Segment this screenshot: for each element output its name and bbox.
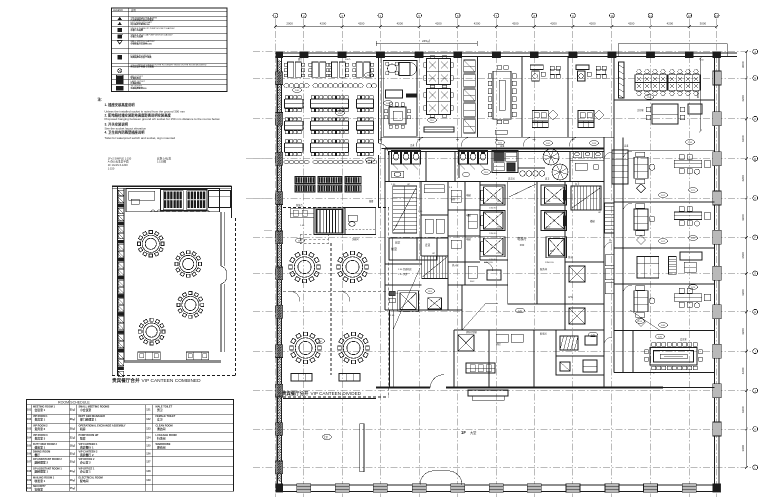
svg-text:129: 129 <box>146 479 151 482</box>
columns on right wall <box>713 71 722 436</box>
svg-text:配电间: 配电间 <box>540 332 547 336</box>
svg-text:4200: 4200 <box>628 21 635 25</box>
svg-text:20㎡: 20㎡ <box>70 460 76 464</box>
top grid bubbles and dimension line <box>273 13 719 28</box>
svg-text:L: L <box>754 466 756 470</box>
open office cluster north 1 <box>424 56 453 87</box>
svg-text:1.20: 1.20 <box>418 211 423 213</box>
svg-text:VIP CANTEEN COMBINED: VIP CANTEEN COMBINED <box>142 378 202 384</box>
room tag 116 <box>315 339 324 344</box>
lobby floor label <box>461 430 476 435</box>
svg-text:3600: 3600 <box>741 252 745 259</box>
svg-text:115: 115 <box>298 241 302 243</box>
fire control x-box <box>458 335 474 351</box>
sofa office room 3 <box>634 286 711 327</box>
room tag 107 <box>658 239 667 244</box>
svg-text:E: E <box>754 196 756 200</box>
svg-text:清洁间: 清洁间 <box>157 427 166 431</box>
svg-text:4. 卫生间内防溅型插座说明: 4. 卫生间内防溅型插座说明 <box>105 129 146 134</box>
heavy lobby wall <box>376 375 715 388</box>
svg-text:女卫: 女卫 <box>575 182 580 186</box>
svg-text:101: 101 <box>498 143 502 145</box>
stair west <box>393 186 417 233</box>
interior dimension bracket canteen <box>376 38 477 46</box>
svg-text:35㎡: 35㎡ <box>70 451 76 455</box>
wc stalls mid <box>459 151 488 177</box>
svg-text:102: 102 <box>546 143 550 145</box>
room tag 107 <box>658 193 667 198</box>
svg-text:办公室 2: 办公室 2 <box>80 461 91 465</box>
columns on left wall <box>276 72 283 474</box>
svg-text:∅: ∅ <box>653 372 655 375</box>
room tag 108 <box>658 323 667 328</box>
svg-text:UP: UP <box>407 184 411 186</box>
svg-text:会议室 1: 会议室 1 <box>35 408 46 412</box>
open office shelf <box>424 127 454 132</box>
svg-text:1: 1 <box>275 14 277 18</box>
svg-text:3000: 3000 <box>741 61 745 68</box>
svg-text:女卫: 女卫 <box>157 418 163 422</box>
svg-text:K: K <box>754 427 756 431</box>
vip combined round table 4 <box>138 318 165 345</box>
svg-text:注:: 注: <box>98 97 103 102</box>
workstation bank right 2 <box>668 69 700 95</box>
ahu room with x-box 2 <box>428 298 442 309</box>
svg-text:消控: 消控 <box>496 342 501 346</box>
core inner small rooms west block <box>385 182 595 311</box>
core outer heavy walls <box>385 149 604 389</box>
grid stub lines left <box>246 159 272 230</box>
svg-text:109: 109 <box>27 479 32 482</box>
rooms under west lift bank <box>389 262 501 303</box>
svg-text:106: 106 <box>27 452 32 455</box>
svg-text:1.5C 风井: 1.5C 风井 <box>398 272 408 276</box>
svg-text:28㎡: 28㎡ <box>70 417 76 421</box>
svg-text:7: 7 <box>496 14 498 18</box>
right small office desk room y100-150 <box>646 104 702 124</box>
vip divided round table 3 <box>290 332 322 364</box>
svg-text:4200: 4200 <box>741 95 745 102</box>
svg-text:119: 119 <box>428 291 432 293</box>
oval marks lobby <box>323 434 332 439</box>
lobby mullion feature <box>360 424 364 472</box>
fire control suite south of core <box>454 330 534 388</box>
vip divided dashed boundary <box>283 208 389 398</box>
svg-text:2: 2 <box>303 14 305 18</box>
svg-text:121: 121 <box>691 190 695 192</box>
svg-text:F60: F60 <box>520 243 525 247</box>
svg-text:副经理室 1: 副经理室 1 <box>35 470 49 474</box>
notes heading <box>98 97 221 141</box>
svg-text:102: 102 <box>27 418 32 421</box>
vip divided round table 1 <box>289 251 321 283</box>
svg-text:洗手间: 洗手间 <box>508 177 515 181</box>
svg-text:电梯厅: 电梯厅 <box>517 236 527 241</box>
svg-text:1F 1G/1S 6-1200: 1F 1G/1S 6-1200 <box>108 163 128 167</box>
lift bank east (3 lifts) <box>541 185 566 258</box>
svg-text:收发室 1: 收发室 1 <box>35 479 46 483</box>
svg-text:18㎡: 18㎡ <box>70 478 76 482</box>
svg-text:2000: 2000 <box>286 21 293 25</box>
svg-text:4200: 4200 <box>741 175 745 182</box>
svg-text:4200: 4200 <box>741 406 745 413</box>
svg-text:18㎡: 18㎡ <box>70 444 76 448</box>
svg-text:电梯: 电梯 <box>466 193 471 197</box>
svg-text:106: 106 <box>295 90 299 92</box>
room tag 106 <box>335 111 344 116</box>
svg-text:103: 103 <box>27 427 32 430</box>
svg-text:4200: 4200 <box>667 21 674 25</box>
vip divided benches <box>291 374 360 382</box>
spec text block <box>108 156 172 170</box>
svg-text:245㎡: 245㎡ <box>422 38 430 43</box>
svg-text:UP: UP <box>432 253 436 255</box>
svg-text:122: 122 <box>691 238 695 240</box>
svg-text:服务间: 服务间 <box>540 267 548 271</box>
room tag 120 <box>515 308 524 313</box>
svg-text:108: 108 <box>661 325 665 327</box>
svg-text:大堂: 大堂 <box>324 435 329 439</box>
svg-text:电梯: 电梯 <box>466 237 471 241</box>
building left wall <box>277 53 281 492</box>
svg-text:2.50 空调机房: 2.50 空调机房 <box>398 267 412 271</box>
room tag 109 <box>383 101 392 106</box>
room tag 104 <box>685 140 694 145</box>
svg-text:9: 9 <box>572 14 574 18</box>
room right of core with tv <box>612 150 628 184</box>
svg-text:125: 125 <box>146 445 151 448</box>
service shaft strip left of conference <box>462 57 478 138</box>
ns corridor walls <box>604 100 614 388</box>
svg-text:贵宾室 3: 贵宾室 3 <box>35 437 46 441</box>
svg-text:H: H <box>754 310 756 314</box>
svg-text:123: 123 <box>691 287 695 289</box>
svg-text:2.40: 2.40 <box>390 315 395 317</box>
columns on bottom wall <box>297 484 696 493</box>
vip combined right wall and dashed boundary <box>112 186 236 375</box>
columns on top wall <box>300 52 721 58</box>
sofa office room 2 <box>634 204 711 245</box>
svg-text:4200: 4200 <box>358 21 365 25</box>
svg-text:4200: 4200 <box>512 21 519 25</box>
svg-text:1350 KG: 1350 KG <box>545 262 554 264</box>
vip combined round table 3 <box>177 292 204 319</box>
janitor dark block <box>492 151 518 173</box>
svg-text:1F: 1F <box>461 430 466 435</box>
svg-text:贵宾餐厅 1: 贵宾餐厅 1 <box>80 445 94 449</box>
svg-text:D: D <box>754 157 756 161</box>
vip combined round table 2 <box>175 251 202 278</box>
buffet counters striped <box>295 177 361 193</box>
svg-text:4200: 4200 <box>741 289 745 296</box>
svg-text:餐厅: 餐厅 <box>34 453 41 457</box>
pantry square table with chairs <box>384 103 411 129</box>
core strip rooms between stair and lifts <box>448 182 480 286</box>
svg-text:1.00: 1.00 <box>300 225 305 227</box>
svg-text:C: C <box>754 117 756 121</box>
svg-text:贵宾餐厅合并: 贵宾餐厅合并 <box>112 377 140 384</box>
svg-text:1350: 1350 <box>546 201 550 203</box>
svg-text:104: 104 <box>688 142 692 144</box>
svg-text:4200: 4200 <box>474 21 481 25</box>
svg-text:300人: 300人 <box>345 58 352 61</box>
wc stalls west <box>392 151 421 178</box>
canteen table band y=117.7 <box>285 118 374 134</box>
diagonal leader lines lobby <box>393 268 660 331</box>
svg-text:110: 110 <box>27 487 32 490</box>
svg-text:127: 127 <box>146 461 151 464</box>
svg-text:1:150图: 1:150图 <box>157 160 166 164</box>
svg-text:Toilet for waterproof switch a: Toilet for waterproof switch and socket,… <box>105 136 176 140</box>
scattered annotation texts <box>296 57 704 375</box>
wc east fixtures <box>570 151 604 182</box>
vip combined benches <box>138 352 209 360</box>
svg-text:3.6: 3.6 <box>449 187 453 189</box>
svg-text:105: 105 <box>27 445 32 448</box>
corridor doors top band <box>416 137 578 146</box>
svg-text:122: 122 <box>146 418 151 421</box>
svg-text:104: 104 <box>27 437 32 440</box>
svg-text:123: 123 <box>146 427 151 430</box>
svg-text:4200: 4200 <box>435 21 442 25</box>
toilet band <box>389 152 604 182</box>
svg-text:20㎡: 20㎡ <box>70 469 76 473</box>
svg-text:值班室 1: 值班室 1 <box>34 445 46 449</box>
svg-text:1350: 1350 <box>546 227 550 229</box>
sofa office room 1 <box>634 152 711 193</box>
core misc partitions <box>385 149 604 331</box>
svg-text:1350: 1350 <box>497 227 501 229</box>
svg-text:101: 101 <box>27 408 32 411</box>
lobby reception desk <box>468 390 508 400</box>
svg-text:28㎡: 28㎡ <box>70 426 76 430</box>
svg-text:走道: 走道 <box>425 243 431 247</box>
svg-text:售饭台: 售饭台 <box>296 203 303 207</box>
svg-text:1350 KG: 1350 KG <box>484 262 493 264</box>
room tag 106 <box>292 88 301 93</box>
svg-text:108: 108 <box>27 470 32 473</box>
svg-text:A: A <box>754 50 756 54</box>
svg-text:4200: 4200 <box>741 214 745 221</box>
office room B <box>568 57 614 138</box>
svg-text:ROOM SCHEDULE: ROOM SCHEDULE <box>58 400 90 404</box>
svg-text:VIP CANTEEN DIVIDED: VIP CANTEEN DIVIDED <box>311 391 362 396</box>
svg-text:办公室 1: 办公室 1 <box>80 470 91 474</box>
svg-text:124: 124 <box>638 321 642 323</box>
svg-text:4200: 4200 <box>741 135 745 142</box>
stair east <box>571 186 601 210</box>
svg-text:OPERATIONAL EXCHANGE ASSEMBLY: OPERATIONAL EXCHANGE ASSEMBLY <box>79 425 126 428</box>
interior dimension bracket right room <box>618 44 727 57</box>
svg-text:大堂: 大堂 <box>470 430 476 435</box>
svg-text:4200: 4200 <box>550 21 557 25</box>
svg-text:B: B <box>754 76 756 80</box>
svg-text:Proposed hanging between groun: Proposed hanging between ground wh socke… <box>105 117 221 121</box>
stair south-west <box>422 256 448 279</box>
west corridor below vip-divided <box>283 398 376 400</box>
svg-text:126: 126 <box>591 335 595 337</box>
servery dark block <box>290 208 345 235</box>
building bottom wall <box>277 485 719 492</box>
svg-text:121: 121 <box>146 408 151 411</box>
svg-text:1:150: 1:150 <box>108 167 115 171</box>
svg-text:3: 3 <box>341 14 343 18</box>
svg-text:J: J <box>755 389 757 393</box>
room tag 110 <box>427 118 436 123</box>
workstation bank right 1 <box>635 69 667 95</box>
svg-text:说明: 说明 <box>131 8 136 12</box>
svg-text:107: 107 <box>661 241 665 243</box>
suite room middle <box>637 252 702 278</box>
ahu room with x-box 1 <box>398 291 419 312</box>
room schedule rows text <box>27 406 177 492</box>
svg-text:F: F <box>754 236 756 240</box>
svg-text:118: 118 <box>484 172 488 174</box>
svg-text:井: 井 <box>609 238 612 242</box>
svg-text:LEGEND: LEGEND <box>113 9 123 12</box>
svg-text:机房: 机房 <box>79 427 86 431</box>
svg-text:AHU: AHU <box>568 296 573 299</box>
interior vert dim right room <box>696 57 702 133</box>
room tag 118 <box>481 170 490 175</box>
svg-text:男卫: 男卫 <box>545 177 550 181</box>
svg-text:贵宾餐厅 2: 贵宾餐厅 2 <box>80 453 94 457</box>
svg-text:I: I <box>755 350 756 354</box>
svg-text:1F+2 SIMPLE 1:150: 1F+2 SIMPLE 1:150 <box>108 156 132 160</box>
svg-text:茶水: 茶水 <box>568 255 573 259</box>
bottom right conference room <box>633 331 702 373</box>
room tag 115 <box>295 238 304 243</box>
west wall of lobby (vip edge down) <box>390 310 394 388</box>
conference room north <box>477 57 522 138</box>
svg-text:4200: 4200 <box>741 328 745 335</box>
svg-text:35㎡: 35㎡ <box>70 407 76 411</box>
room tag 114 <box>365 158 374 163</box>
svg-text:消防: 消防 <box>451 197 456 201</box>
canteen table band y=139.8 <box>285 140 374 156</box>
fire control desk <box>466 334 523 373</box>
top right room shelf strip <box>619 62 625 98</box>
svg-text:250: 250 <box>700 60 704 62</box>
svg-text:3000: 3000 <box>700 21 707 25</box>
vip combined left wall hatch blocks <box>118 190 124 377</box>
corner blocks <box>276 52 721 492</box>
svg-text:部门经理室 1: 部门经理室 1 <box>80 418 97 422</box>
vip combined top cabinets <box>126 189 231 212</box>
svg-text:15㎡: 15㎡ <box>70 486 76 490</box>
room tag 121 <box>688 188 697 193</box>
lift lobby west rooms <box>389 238 437 260</box>
room tag 103 <box>589 141 598 146</box>
svg-text:贵宾室 1: 贵宾室 1 <box>35 418 46 422</box>
legend description text <box>130 16 207 89</box>
svg-text:126: 126 <box>146 452 151 455</box>
servery dashed queue lines <box>300 235 328 244</box>
room tag 102 <box>543 141 552 146</box>
svg-text:走道: 走道 <box>410 143 415 147</box>
svg-text:贵宾餐厅分开: 贵宾餐厅分开 <box>282 390 309 397</box>
room below core east <box>556 330 604 375</box>
room tag 105 <box>364 73 373 78</box>
svg-text:110: 110 <box>430 120 434 122</box>
building right wall <box>715 53 720 492</box>
hall door diagonal <box>509 184 536 197</box>
open office cluster north 2 <box>424 86 453 117</box>
svg-text:4200: 4200 <box>589 21 596 25</box>
room tag 251 <box>644 95 653 100</box>
svg-text:文印室: 文印室 <box>637 108 644 112</box>
svg-text:A-办公标准层平面: A-办公标准层平面 <box>108 160 129 164</box>
pantry room west <box>383 60 417 136</box>
canteen stool row 2 <box>284 160 309 164</box>
svg-text:3900: 3900 <box>741 445 745 452</box>
lift bank west (3 lifts) <box>480 185 505 261</box>
svg-text:5: 5 <box>418 14 420 18</box>
room tag 125 <box>655 334 664 339</box>
right wing partitions <box>614 100 715 373</box>
small shaft boxes east core <box>569 266 585 324</box>
fan screens <box>543 149 568 180</box>
lift hall center <box>508 182 537 305</box>
svg-text:消火栓: 消火栓 <box>452 263 459 267</box>
right grid bubbles and dimension line <box>741 49 757 470</box>
svg-text:服务: 服务 <box>550 249 554 253</box>
top right open office room <box>614 57 715 100</box>
svg-text:前室: 前室 <box>391 246 397 251</box>
svg-text:备餐: 备餐 <box>369 199 374 203</box>
svg-text:128: 128 <box>146 470 151 473</box>
canteen vertical table pairs top row <box>284 62 373 77</box>
svg-text:1350: 1350 <box>497 201 501 203</box>
svg-text:1350: 1350 <box>497 253 501 255</box>
svg-text:107: 107 <box>27 461 32 464</box>
svg-text:贵宾室 2: 贵宾室 2 <box>35 427 46 431</box>
structural grid lines <box>253 19 751 498</box>
svg-text:4200: 4200 <box>397 21 404 25</box>
lobby door arcs bottom <box>420 471 462 485</box>
vip divided round table 2 <box>337 251 369 283</box>
svg-text:107: 107 <box>661 195 665 197</box>
svg-text:行李间: 行李间 <box>156 437 166 441</box>
svg-text:更衣间: 更衣间 <box>157 445 166 449</box>
svg-text:楼梯: 楼梯 <box>590 219 595 223</box>
svg-text:4: 4 <box>380 14 382 18</box>
room schedule table <box>27 399 234 491</box>
svg-text:UP: UP <box>598 212 602 214</box>
vip canteen combined outer walls <box>112 186 232 375</box>
svg-text:泵房: 泵房 <box>80 437 86 441</box>
wash basins row <box>518 168 545 176</box>
svg-text:比例:1A标准: 比例:1A标准 <box>157 156 172 160</box>
svg-text:6: 6 <box>457 14 459 18</box>
svg-text:FHC: FHC <box>470 281 475 283</box>
svg-text:106: 106 <box>338 113 342 115</box>
vip combined caption <box>112 377 201 384</box>
svg-text:22㎡: 22㎡ <box>70 436 76 440</box>
svg-text:103: 103 <box>592 143 596 145</box>
servery side room <box>345 208 376 235</box>
svg-text:前室: 前室 <box>395 241 401 245</box>
svg-text:电梯: 电梯 <box>466 213 471 217</box>
svg-text:116: 116 <box>318 341 322 343</box>
svg-text:1350 KG: 1350 KG <box>489 208 497 210</box>
svg-text:配电间: 配电间 <box>80 479 89 483</box>
room tag 126 <box>588 332 597 337</box>
small tick marks along walls <box>379 137 575 141</box>
corridor shaft boxes <box>605 203 615 294</box>
legend table frame <box>111 8 227 92</box>
canteen east wall <box>379 57 389 208</box>
